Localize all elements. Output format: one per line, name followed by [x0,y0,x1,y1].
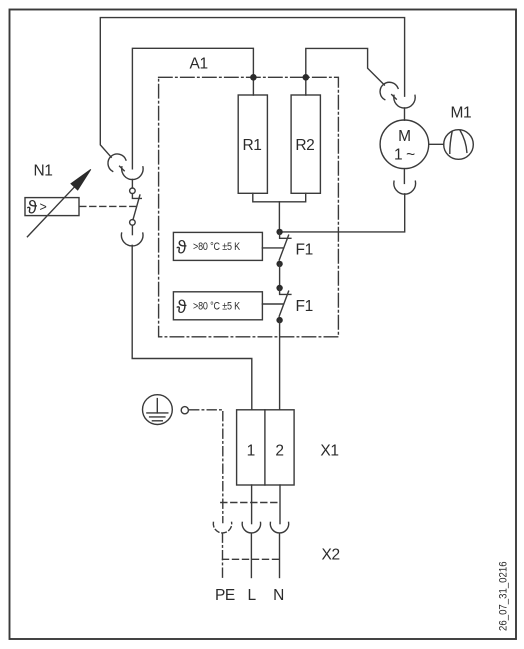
wire (R1/R2 bottoms join) [253,193,306,202]
node dot above F1 [276,229,282,235]
wire X1 terminal 2 to X2 pin N [279,485,281,524]
X2 socket N [270,522,288,533]
X1 divider [264,410,266,485]
N1 switch hook [132,194,141,199]
svg-text:>: > [40,200,47,214]
svg-text:M1: M1 [451,105,472,122]
N1 actuator dashed link [80,205,136,207]
fan M1 circle [444,130,474,160]
N1 switch contact top circle [130,188,136,194]
svg-text:X1: X1 [320,443,338,460]
X2 socket PE (dashed) [213,522,231,533]
svg-text:ϑ: ϑ [177,237,187,258]
svg-text:F1: F1 [296,298,313,315]
svg-text:M: M [398,128,411,145]
thermostat box upper (>80 C) [173,232,262,260]
svg-text:L: L [247,587,256,604]
node dot between F1 contacts (lower) [276,285,282,291]
terminal block X1 [237,410,295,485]
wire B2 (R2 top to motor top) [306,48,385,95]
svg-text:R2: R2 [295,137,314,154]
connector pair above N1 switch: socket on wire A [108,154,126,171]
svg-text:ϑ: ϑ [27,197,37,218]
PE lead below X2 [222,533,224,577]
earth bar 1 [147,412,168,414]
wire N1 switch down to lower connector [131,225,133,234]
connector socket above N1 switch (upright cup) [122,167,143,180]
svg-text:F1: F1 [296,242,313,259]
N1 switch blade [133,195,140,220]
connector socket above motor (upright cup) [394,95,415,108]
connector pair above motor: socket on wire B2 [380,82,398,99]
thermal cutout F1 (lower contact) [262,288,291,316]
wire (motor bottom to F1 node) [280,194,405,232]
svg-text:ϑ: ϑ [177,296,187,317]
wire motor bottom pin [403,169,405,184]
wire cup to N1 switch [131,179,133,188]
PE protective earth circle symbol [143,395,173,425]
earth bar 2 [150,416,165,418]
svg-text:1: 1 [247,443,255,460]
dashed link X2 leads [223,558,280,560]
earth stem [156,399,158,413]
svg-text:1 ~: 1 ~ [394,147,415,164]
node junction dot on A1 top left [250,74,257,81]
wire F1 to X1 terminal 2 [279,320,281,410]
wire cup to motor [404,108,406,120]
wire B1 (switch top to R1 top) [132,48,253,169]
motor M circle [380,120,429,169]
svg-text:>80 °C ±5 K: >80 °C ±5 K [193,241,241,253]
svg-text:2: 2 [275,443,283,460]
connector socket below motor [394,181,416,194]
N1 switch contact bottom circle [130,220,136,226]
N1 actuator arrow [27,183,78,237]
wire motor to fan [429,143,444,145]
svg-text:N1: N1 [34,163,53,180]
PE dash-dot wire to X2 [190,410,223,523]
resistor R2 [291,95,320,193]
svg-text:R1: R1 [243,137,262,154]
A1 assembly dash-dot box [159,77,339,337]
node dot between F1 contacts (upper) [276,261,282,267]
svg-text:X2: X2 [322,547,340,564]
X2 socket L [242,522,260,533]
svg-text:N: N [273,587,284,604]
svg-text:A1: A1 [190,56,208,73]
connector pin stub [120,166,125,171]
svg-text:26_07_31_0216: 26_07_31_0216 [498,561,510,631]
svg-text:PE: PE [215,587,235,604]
fan blade right [460,130,467,152]
fan blade left [450,131,452,153]
wire between F1 contacts [279,264,281,288]
node junction dot on A1 top right [303,74,310,81]
wire A (switch top to motor top loop) [100,18,404,158]
connector pin stub [392,95,397,100]
connector socket below N1 switch [121,233,143,246]
earth bar 3 [152,420,162,422]
node dot below F1 lower [276,317,282,323]
dashed link X1 area [221,502,278,504]
thermostat box lower (>80 C) [173,292,262,320]
wire (join to F1 node) [278,202,280,232]
svg-text:>80 °C ±5 K: >80 °C ±5 K [193,300,241,312]
resistor R1 [238,95,267,193]
L lead below X2 [250,533,252,577]
wire L branch: connector to X1 terminal 1 [132,245,252,409]
thermostat N1 box [25,198,79,216]
wire X1 terminal 1 to X2 pin L [251,485,253,524]
thermal cutout F1 (upper contact) [262,232,291,260]
PE connection point circle [181,407,188,414]
N lead below X2 [279,533,281,577]
